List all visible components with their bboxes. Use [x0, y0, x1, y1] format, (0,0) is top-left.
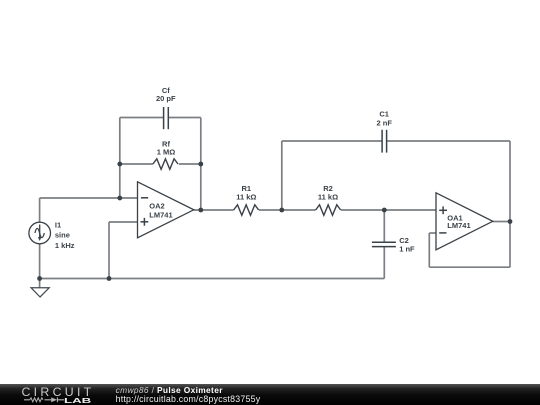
svg-text:OA2: OA2	[149, 201, 164, 210]
svg-text:I1: I1	[55, 220, 61, 229]
wire Rf right lead	[179, 163, 201, 165]
svg-text:LAB: LAB	[64, 397, 91, 404]
logo resistor zigzag glyph	[30, 397, 43, 401]
capacitor C1	[382, 130, 387, 153]
resistor Rf	[153, 159, 178, 170]
wire OA2 noninverting input horizontal	[109, 221, 138, 223]
svg-text:1 MΩ: 1 MΩ	[157, 148, 176, 157]
wire OA2 output to R1	[194, 209, 234, 211]
wire C2 bottom lead	[383, 247, 385, 279]
wire I1 bottom vertical	[39, 244, 41, 279]
node junction R2 / C2	[382, 208, 387, 213]
svg-text:LM741: LM741	[149, 211, 172, 220]
logo diode glyph	[51, 397, 57, 402]
wire bottom rail	[40, 278, 385, 280]
wire Cf right lead	[168, 117, 201, 119]
wire OA1 feedback bottom horizontal	[429, 266, 510, 268]
svg-text:1 nF: 1 nF	[399, 245, 415, 254]
wire C2 top lead	[383, 210, 385, 242]
wire C1 left lead	[282, 140, 382, 142]
wire OA1 feedback left vertical	[428, 233, 430, 267]
capacitor Cf	[164, 107, 169, 129]
svg-text:1 kHz: 1 kHz	[55, 241, 75, 250]
logo diode cathode bar	[56, 397, 58, 402]
node junction R1-R2 / C1 riser	[279, 208, 284, 213]
op-amp OA2	[138, 182, 194, 238]
svg-text:C1: C1	[379, 110, 389, 119]
wire R1 to R2	[259, 209, 316, 211]
footer bar	[0, 384, 540, 405]
node junction Rf right	[198, 162, 203, 167]
svg-text:C2: C2	[399, 236, 409, 245]
svg-text:20 pF: 20 pF	[156, 94, 176, 103]
node junction OA2 output	[198, 208, 203, 213]
svg-text:sine: sine	[55, 231, 70, 240]
capacitor C2	[372, 242, 396, 246]
svg-text:11 kΩ: 11 kΩ	[318, 192, 338, 201]
svg-text:11 kΩ: 11 kΩ	[236, 192, 256, 201]
resistor R1	[234, 205, 259, 216]
op-amp OA1	[436, 193, 493, 250]
wire Rf left lead	[120, 163, 153, 165]
wire feedback left vertical	[119, 118, 121, 199]
current source I1	[29, 222, 51, 244]
node junction bottom rail / OA2 + drop	[107, 276, 112, 281]
wire Cf left lead	[120, 117, 164, 119]
wire node to C1 vertical riser	[281, 141, 283, 210]
wire ground stub	[39, 279, 41, 288]
svg-text:http://circuitlab.com/c8pycst8: http://circuitlab.com/c8pycst83755y	[116, 394, 261, 404]
wire R2 to OA1 noninverting input	[341, 209, 436, 211]
wire OA1 output	[493, 221, 510, 223]
logo connecting wire	[24, 398, 64, 400]
wire output right vertical	[509, 141, 511, 267]
node junction I1 bottom	[37, 276, 42, 281]
svg-text:2 nF: 2 nF	[376, 118, 392, 127]
svg-text:LM741: LM741	[447, 221, 470, 230]
wire OA2 noninverting input vertical drop	[108, 222, 110, 279]
node junction OA1 output	[508, 219, 513, 224]
wire OA1 inverting input stub	[429, 232, 436, 234]
resistor R2	[316, 205, 341, 216]
wire C1 right lead	[387, 140, 510, 142]
node junction at OA2 inverting input	[117, 196, 122, 201]
ground	[31, 288, 49, 297]
wire top-left horizontal to OA2 inverting input	[40, 197, 138, 199]
node junction Rf left	[117, 162, 122, 167]
wire feedback right vertical	[200, 118, 202, 211]
wire I1 top vertical	[39, 198, 41, 222]
